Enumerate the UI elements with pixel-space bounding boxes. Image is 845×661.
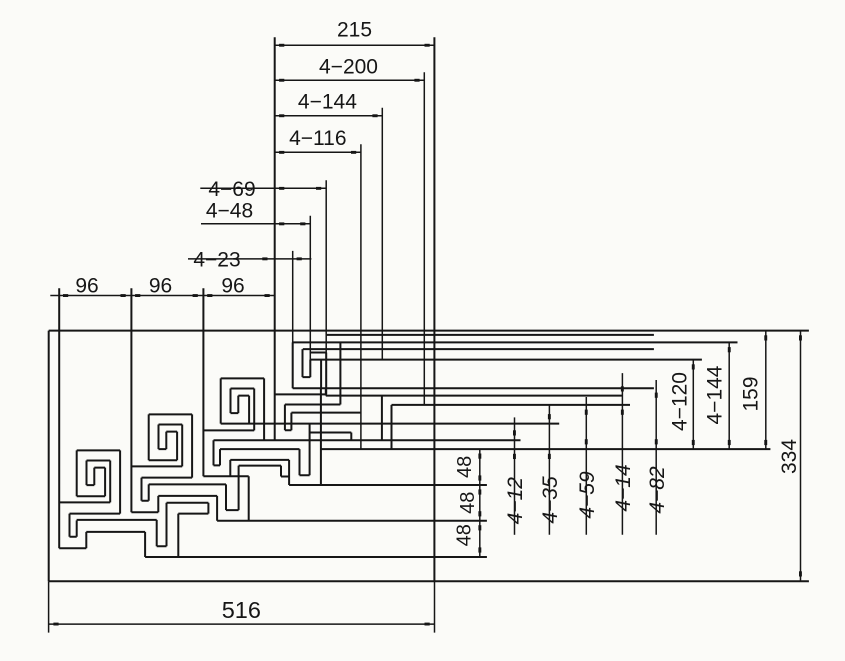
svg-text:4−48: 4−48 (206, 200, 253, 223)
svg-text:4−14: 4−14 (612, 464, 635, 511)
dimension 4-144 top with extension line (274, 91, 382, 360)
plate body outline (516x334) with edges extended right as extension lines (49, 37, 809, 581)
svg-text:96: 96 (149, 274, 172, 297)
dimension 4-23 (line through text, outside arrows) with extension line (188, 249, 311, 389)
svg-text:4−12: 4−12 (504, 477, 527, 525)
svg-text:4−35: 4−35 (539, 476, 562, 524)
dimension 215 (top, right edge to cut4 entry) (274, 18, 434, 46)
svg-text:516: 516 (222, 597, 261, 623)
svg-text:4−116: 4−116 (289, 127, 346, 150)
dimension 334 (overall height, rotated) (778, 331, 802, 582)
dimension 159 (right side, rotated) (740, 331, 767, 450)
meander cut 1 (lower-left Greek-key spiral and stepped tail) (59, 288, 487, 557)
dimension 4-200 with extension line (274, 55, 424, 405)
svg-text:159: 159 (740, 376, 763, 411)
dimension 4-35 (rotated, line through text, outside arrows) (539, 404, 562, 535)
dimension 4-120 (right side, rotated) (669, 360, 695, 450)
dimension 4-116 with extension line (274, 127, 361, 449)
chain dimension 48 x3 (tail run spacing, rotated) (453, 449, 481, 557)
dimension 4-69 (line through text) with extension line (200, 178, 326, 395)
svg-text:4−82: 4−82 (646, 466, 669, 514)
dimension 4-12 (rotated, line through text, outside arrows) (504, 417, 527, 534)
dimension 4-144 right side (rotated) (704, 342, 731, 449)
svg-text:48: 48 (453, 524, 475, 546)
dimension 4-59 (rotated, line through text) (576, 397, 599, 535)
dimension 4-82 (rotated, line through text) (646, 380, 669, 535)
dimension 516 (bottom overall width) with extension lines (49, 581, 435, 632)
svg-text:215: 215 (337, 18, 372, 41)
svg-text:4−23: 4−23 (193, 249, 240, 272)
svg-text:4−69: 4−69 (208, 178, 255, 201)
svg-text:4−144: 4−144 (298, 91, 357, 114)
dimension 4-14 (rotated, line through text, outside arrows) (612, 373, 635, 535)
svg-text:96: 96 (221, 274, 244, 297)
svg-text:4−59: 4−59 (576, 471, 599, 519)
svg-text:4−144: 4−144 (704, 365, 727, 424)
dimension 4-48 with extension line (201, 200, 310, 378)
meander cut 2 (second Greek-key spiral and stepped tail) (131, 288, 487, 521)
svg-text:4−200: 4−200 (319, 55, 378, 78)
meander cut 4 (upper-right Greek-key spiral and stepped tail) (220, 37, 770, 485)
meander cut 3 (third Greek-key spiral and stepped tail) (203, 288, 559, 521)
staircase step lines upper-right (partial cuts and step edges) (303, 335, 654, 449)
svg-text:96: 96 (75, 274, 98, 297)
svg-text:48: 48 (457, 492, 479, 514)
svg-text:48: 48 (454, 456, 476, 478)
svg-text:334: 334 (778, 439, 801, 474)
chain dimension 96 x3 (cut entry spacing) (50, 274, 274, 297)
svg-text:4−120: 4−120 (669, 372, 692, 431)
